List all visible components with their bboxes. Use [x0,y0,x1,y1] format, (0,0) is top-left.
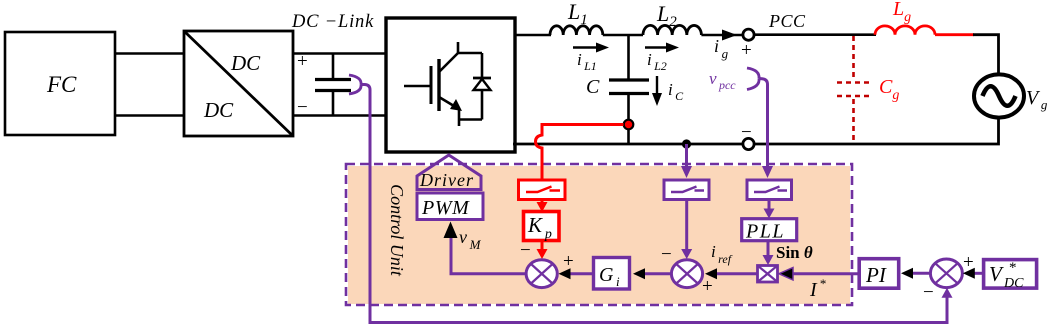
svg-text:PI: PI [865,263,887,287]
converter DC/DC [184,31,293,136]
svg-text:−: − [741,122,752,143]
svg-text:FC: FC [46,72,77,97]
svg-text:+: + [297,51,308,72]
arrow summer2 to Gi [642,272,671,275]
summer 3 (DC voltage error) [930,259,962,288]
svg-text:DC: DC [203,98,234,122]
inductor L2 [643,25,701,35]
arrow i_L1 [573,43,609,74]
capacitor DC-link [315,54,351,116]
block V*DC reference [984,260,1037,291]
svg-text:−: − [520,240,531,261]
svg-text:V: V [989,262,1004,286]
wire DC/DC to inverter bottom rail [293,114,387,117]
summer 1 (v_M) [526,260,557,288]
node red tap on C branch [624,120,634,130]
svg-text:DC: DC [230,51,261,75]
inductor L1 [550,26,603,35]
wire ig sense down to sampler [685,144,688,171]
capacitor C branch wire upper [627,35,630,80]
svg-text:*: * [1009,260,1017,276]
arrow sampler ig to summer 2 [685,200,688,253]
wire Vg bottom to bottom rail [513,118,999,145]
svg-text:−: − [297,97,308,118]
arrow PLL to multiplier [767,241,770,258]
svg-text:Driver: Driver [419,170,474,190]
node PCC top terminal [743,29,754,40]
block Kp [524,212,560,243]
arrowhead feedback into summer3 [942,288,953,298]
arrow i_C [652,76,684,106]
svg-text:+: + [702,276,713,297]
svg-text:PWM: PWM [421,197,470,219]
arrow Kp to summer 1 [541,240,544,252]
wire L1 to node [603,34,643,37]
summer 2 (current error) [671,260,702,288]
sampler ig (purple) [664,180,709,200]
wire corner to Vg top [973,35,999,75]
probe V_DC sense at DC-link [349,75,361,94]
svg-text:PLL: PLL [745,221,785,243]
block Gi [594,258,630,290]
svg-text:Control Unit: Control Unit [387,184,407,277]
svg-text:−: − [661,244,672,265]
wire summer1 to PWM [451,235,526,274]
wire PI to multiplier [789,272,859,275]
sampler red (inverter voltage) [519,180,566,200]
wire L2 to PCC [701,34,743,37]
control unit shaded region [348,166,850,304]
sampler v_pcc (purple) [747,180,792,200]
arrowhead ig into sampler [681,166,692,178]
multiplier box X [758,266,778,283]
svg-text:+: + [563,251,574,272]
wire PCC to Lg [754,33,876,36]
diode D1 antiparallel [473,53,491,120]
capacitor C [609,80,649,94]
wire red tap to Kp sampler with hop over rail [536,125,624,181]
wire DC/DC to inverter top rail [293,52,387,55]
inductor Lg (red) [875,26,935,35]
capacitor C branch wire lower [627,94,630,145]
svg-text:Sin θ: Sin θ [776,243,813,262]
wire v_pcc down to sampler [759,79,768,172]
arrow i_g [714,30,737,62]
svg-text:PCC: PCC [768,11,806,31]
control unit dashed border [346,164,852,305]
arrow i_L2 [645,43,679,74]
svg-text:+: + [741,40,752,61]
arrow sampler to PLL [768,200,771,213]
wire FC to DC/DC top [115,52,184,55]
wire Lg to corner (red) [935,33,974,36]
node junction ig sense [682,139,691,148]
arrowhead into PWM (black) [444,222,458,239]
block Driver (pentagon) [417,155,481,190]
svg-text:DC: DC [1003,276,1024,291]
svg-text:C: C [586,76,600,98]
arrow summer3 to PI [910,272,930,275]
capacitor Cg dashed branch [837,36,870,143]
node PCC bottom terminal [743,138,754,149]
block FC [5,32,115,135]
svg-text:−: − [923,282,934,303]
arrow Gi to summer1 [567,272,594,275]
block PLL [742,219,797,243]
inverter block [386,18,515,152]
svg-text:DC −Link: DC −Link [291,12,374,32]
wire V_DC sense down and across to summer [361,85,947,323]
block PWM [417,193,483,220]
source Vg [974,74,1024,117]
arrow VDC to summer3 [971,272,984,275]
arrowhead v_pcc into sampler [762,166,773,178]
wire FC to DC/DC bottom [115,114,184,117]
arrow sampler to Kp [541,200,544,207]
arrow multiplier to summer2 [714,272,758,275]
probe v_pcc sense [747,68,759,90]
IGBT Q1 [404,42,482,126]
wire inverter to L1 [515,34,551,37]
block PI [859,259,899,289]
